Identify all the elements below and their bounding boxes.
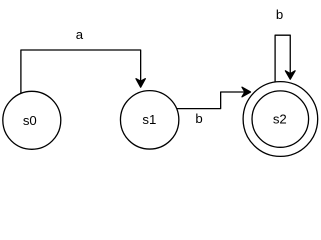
state s1 — [120, 91, 178, 149]
arrowhead into s2 — [242, 87, 251, 97]
svg-text:b: b — [276, 7, 283, 22]
arrowhead into s2 top — [285, 71, 295, 79]
svg-text:b: b — [195, 111, 202, 126]
wire self-loop b on s2 — [275, 35, 290, 83]
svg-text:s2: s2 — [273, 112, 287, 127]
arrowhead into s1 — [136, 79, 145, 88]
state s2 inner circle — [252, 91, 309, 147]
svg-text:a: a — [76, 27, 84, 42]
state s2 outer circle — [243, 82, 318, 157]
state s0 — [3, 91, 61, 149]
wire edge b (s1 to s2) — [175, 92, 245, 109]
svg-text:s0: s0 — [23, 113, 37, 128]
wire edge a (s0 to s1) — [21, 50, 141, 95]
svg-text:s1: s1 — [142, 112, 156, 127]
